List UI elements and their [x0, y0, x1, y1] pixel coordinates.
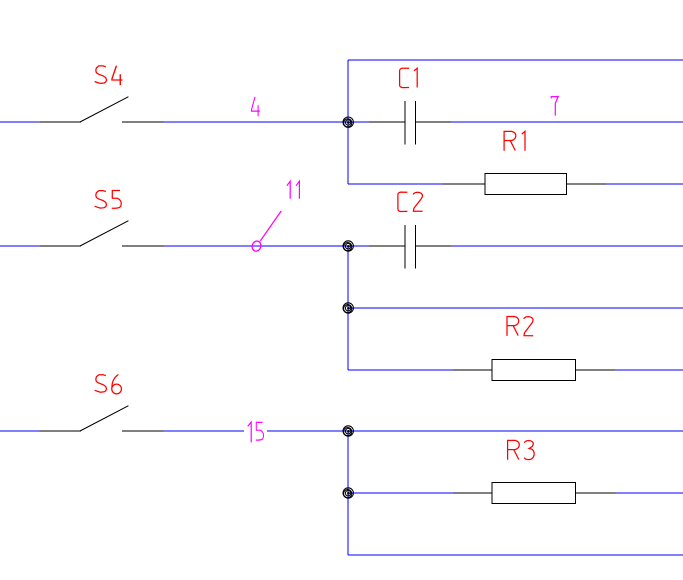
- switch S5: [40, 221, 164, 246]
- wire S6 row after label 15: [267, 430, 683, 432]
- junction branch y=308: [343, 303, 353, 313]
- wire vertical bus x=348 bottom loop: [347, 431, 349, 555]
- wire R2 row right: [615, 369, 683, 371]
- wire right of C2: [451, 245, 683, 247]
- switch S6: [40, 406, 164, 431]
- junction node 15: [343, 426, 353, 436]
- leader line for 11: [260, 211, 281, 241]
- resistor R1: [443, 174, 606, 195]
- label S4: [95, 66, 123, 85]
- wire number 7: [551, 97, 558, 116]
- wire S4 row mid segment (node 4): [164, 121, 370, 123]
- label S6: [95, 375, 122, 394]
- wire R1 row left: [348, 183, 443, 185]
- label R3: [508, 440, 535, 459]
- label R2: [507, 317, 533, 336]
- switch S4: [40, 97, 164, 122]
- wire R1 row right: [606, 183, 683, 185]
- wire S4 row left segment: [0, 121, 40, 123]
- wire S6 row left segment: [0, 430, 40, 432]
- wire vertical bus x=348 top loop: [347, 60, 349, 184]
- resistor R3: [453, 483, 616, 504]
- junction R3 row: [343, 488, 353, 498]
- label S5: [95, 191, 122, 209]
- label C2: [398, 192, 423, 211]
- wire top bus y=60: [348, 59, 683, 61]
- capacitor C2: [369, 225, 451, 269]
- wire number 4: [251, 97, 260, 116]
- wire bottom bus y=555: [348, 554, 683, 556]
- junction node 4 / C1: [343, 117, 353, 127]
- label C1: [400, 68, 418, 87]
- wire S6 row mid segment before label 15: [164, 430, 245, 432]
- wire number 15: [248, 422, 264, 442]
- wire vertical bus x=348 middle loop: [347, 246, 349, 370]
- capacitor C1: [369, 101, 451, 145]
- wire R3 row left: [348, 492, 453, 494]
- wire number 11: [287, 181, 300, 199]
- wire R3 row right: [616, 492, 683, 494]
- wire S5 row mid segment (node 11): [164, 245, 370, 247]
- leader loop on node 11 wire: [251, 240, 262, 252]
- label R1: [504, 131, 525, 150]
- junction node 11 / C2: [343, 241, 353, 251]
- wire node 7 segment right of C1: [451, 121, 683, 123]
- wire R2 row left: [348, 369, 453, 371]
- wire S5 row left segment: [0, 245, 40, 247]
- wire branch row y=308: [348, 307, 683, 309]
- resistor R2: [453, 360, 615, 381]
